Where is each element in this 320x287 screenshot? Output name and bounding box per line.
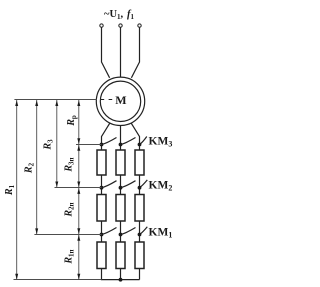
rotated labels — [4, 115, 78, 264]
contactor KM1 contact b — [121, 228, 136, 235]
wire: bank2 to KM1 phase c — [139, 221, 141, 242]
dimension lines group — [14, 100, 102, 280]
contactor KM1 contact a — [102, 228, 117, 235]
contactor KM2 contact a — [102, 181, 117, 188]
arrow Rp bottom — [77, 138, 80, 144]
motor U1 letter M — [115, 93, 126, 107]
resistor bank 3 phase c — [135, 150, 144, 175]
wire: rotor phase A to KM3 — [102, 123, 110, 150]
resistor bank 3 phase b — [116, 150, 125, 175]
terminal L2 — [119, 24, 122, 27]
resistor bank 3 phase a — [97, 150, 106, 175]
wire: bank2 to KM1 phase a — [101, 221, 103, 242]
svg-text:M: M — [115, 93, 126, 107]
contactor KM2 contact c — [140, 180, 148, 188]
wire: phase B supply to motor — [120, 27, 122, 77]
resistor bank 2 phase a — [97, 195, 106, 222]
node line KM1 level — [34, 234, 101, 236]
resistor bank 2 phase c — [135, 195, 144, 222]
node line KM3 level — [76, 144, 102, 146]
arrowheads — [15, 100, 80, 279]
arrow R1p top — [77, 235, 80, 241]
dashed shaft line into motor — [101, 99, 113, 101]
arrow R2 top — [35, 100, 38, 106]
wire: bank3 to KM2 phase b — [120, 175, 122, 195]
arrow R2p bottom — [77, 228, 80, 234]
wire: rotor phase B to KM3 — [120, 125, 122, 150]
wire: rotor phase C to KM3 — [131, 123, 139, 150]
contactor KM3 contact c — [140, 137, 147, 145]
arrow R1 bottom — [15, 274, 18, 280]
wire: bank3 to KM2 phase c — [139, 175, 141, 195]
arrow R1p bottom — [77, 274, 80, 280]
label KM3 — [149, 135, 173, 148]
terminal L1 — [100, 24, 103, 27]
arrow R3 bottom — [55, 182, 58, 188]
wire: bank3 to KM2 phase a — [101, 175, 103, 195]
arrow R2 bottom — [35, 228, 38, 234]
top reference line (rotor level) — [14, 99, 96, 101]
dimension line Rp/R3p/R2p/R1p — [78, 100, 80, 280]
contactor KM3 contact b — [121, 138, 136, 145]
contactor KM2 contact b — [121, 181, 136, 188]
motor U1 rotor circle — [100, 81, 140, 121]
terminal L3 — [138, 24, 141, 27]
resistor bank 2 phase b — [116, 195, 125, 222]
resistor bank 1 phase b — [116, 242, 125, 269]
arrow R3p top — [77, 145, 80, 151]
motor U1 stator circle — [96, 77, 144, 125]
node line KM2 level — [55, 187, 102, 189]
wire: bank2 to KM1 phase b — [120, 221, 122, 242]
label KM2 — [149, 179, 173, 192]
arrow R3p bottom — [77, 182, 80, 188]
contactor KM3 contact a — [102, 138, 117, 145]
dimension line R1 — [16, 100, 18, 280]
bottom reference line — [14, 279, 102, 281]
arrow R1 top — [15, 100, 18, 106]
arrow R3 top — [55, 100, 58, 106]
arrow R2p top — [77, 188, 80, 194]
junction dot on bus — [119, 278, 123, 282]
dimension line R3 — [56, 100, 58, 188]
wire: phase A supply to motor — [102, 27, 110, 77]
dimension line R2 — [36, 100, 38, 235]
wire: bottom shorting bus — [102, 269, 140, 281]
resistor bank 1 phase a — [97, 242, 106, 269]
contactor KM1 contact c — [140, 227, 148, 235]
arrow Rp top — [77, 100, 80, 106]
wire: phase C supply to motor — [131, 27, 139, 77]
label KM1 — [149, 226, 173, 239]
node: supply label ~U1,f1 — [104, 9, 134, 21]
resistor bank 1 phase c — [135, 242, 144, 269]
